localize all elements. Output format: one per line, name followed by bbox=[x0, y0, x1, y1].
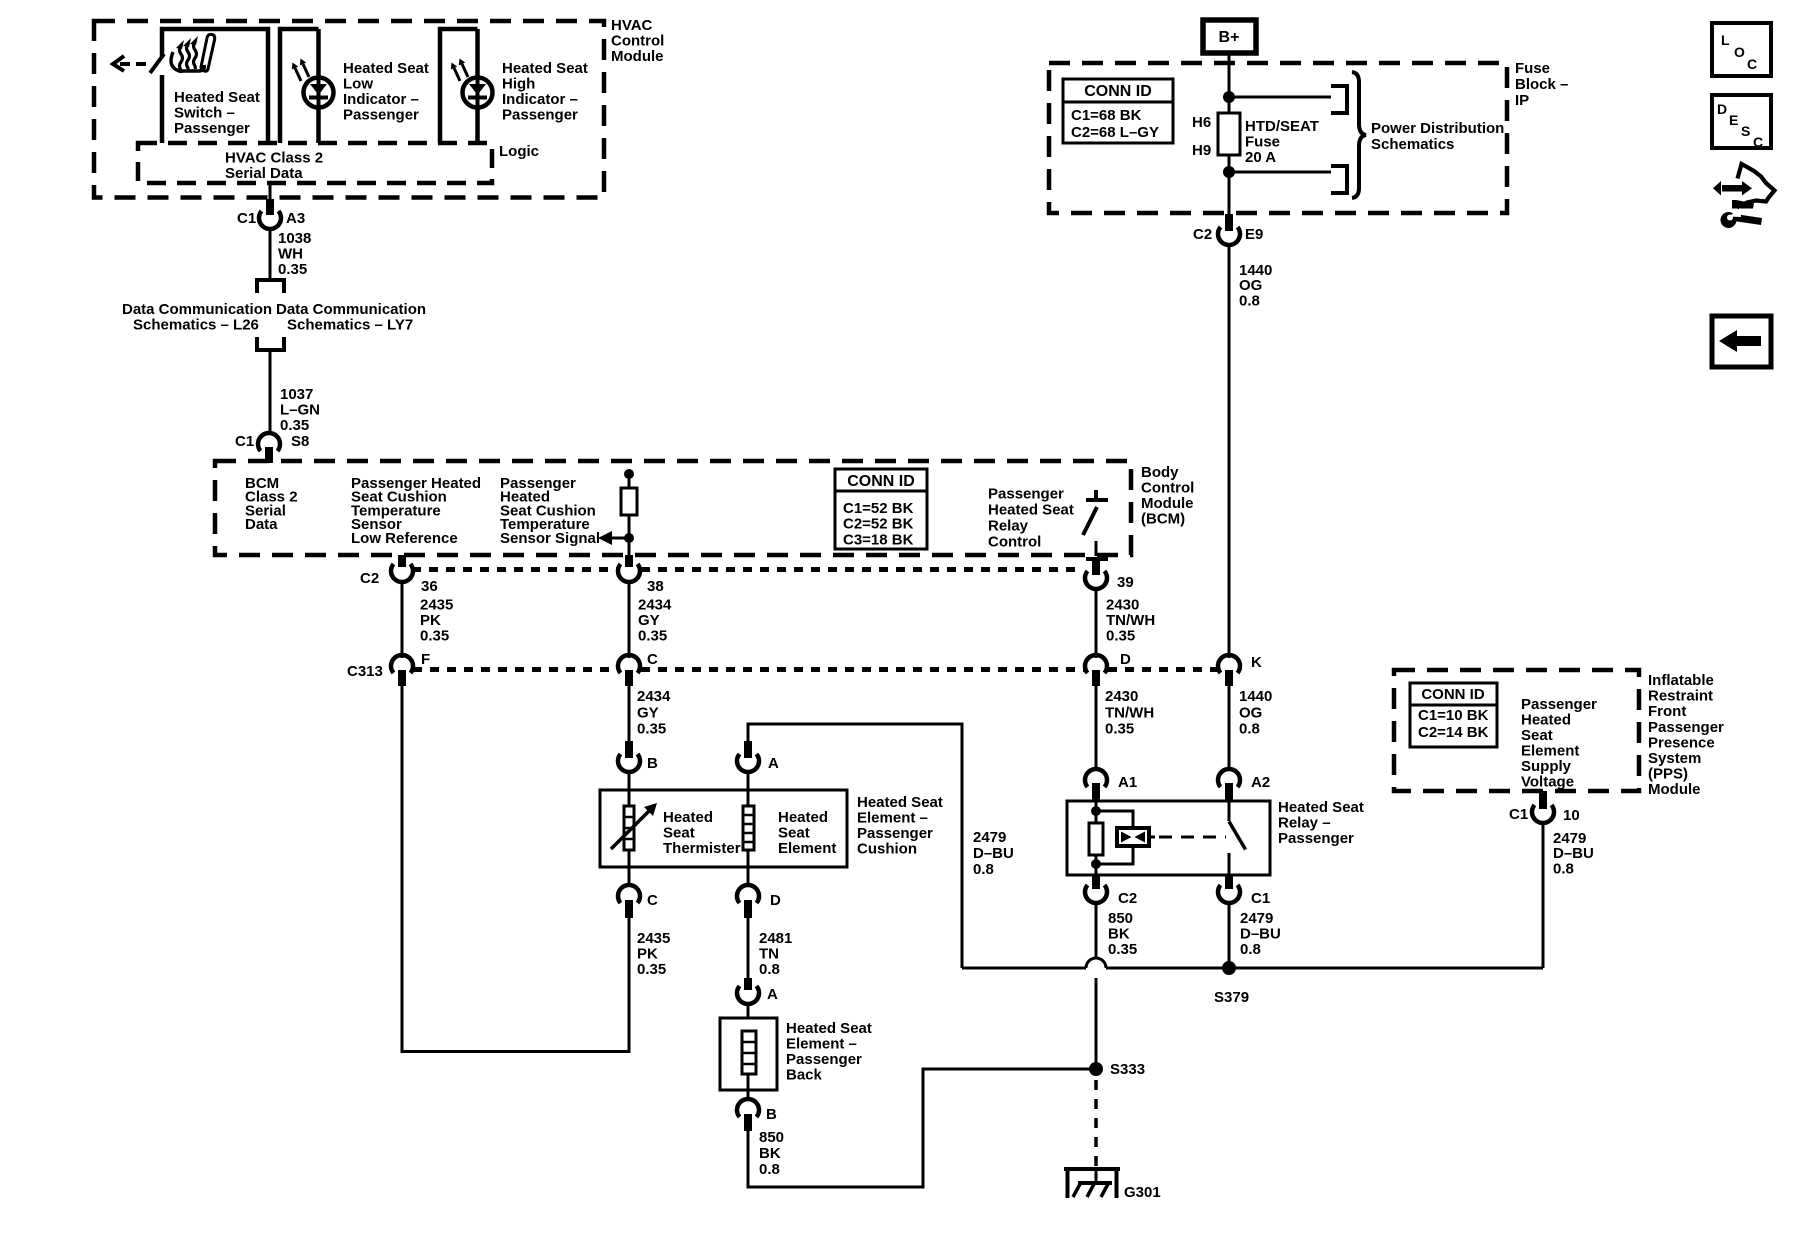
svg-text:CONN ID: CONN ID bbox=[1084, 83, 1152, 100]
svg-text:Power Distribution: Power Distribution bbox=[1371, 120, 1504, 137]
svg-text:2430: 2430 bbox=[1105, 688, 1138, 705]
svg-text:Passenger: Passenger bbox=[1278, 830, 1354, 847]
svg-text:B+: B+ bbox=[1219, 29, 1240, 46]
svg-text:Low: Low bbox=[343, 76, 373, 93]
svg-text:Element –: Element – bbox=[857, 810, 928, 827]
svg-text:Heated Seat: Heated Seat bbox=[343, 60, 429, 77]
svg-text:C1: C1 bbox=[235, 433, 254, 450]
svg-text:Logic: Logic bbox=[499, 143, 539, 160]
svg-text:CONN ID: CONN ID bbox=[1421, 686, 1485, 703]
svg-text:C1: C1 bbox=[1509, 806, 1528, 823]
svg-text:S379: S379 bbox=[1214, 989, 1249, 1006]
svg-text:Passenger: Passenger bbox=[1648, 719, 1724, 736]
svg-text:0.8: 0.8 bbox=[1240, 941, 1261, 958]
svg-text:Fuse: Fuse bbox=[1515, 60, 1550, 77]
svg-text:B: B bbox=[766, 1106, 777, 1123]
svg-text:Module: Module bbox=[1141, 495, 1194, 512]
svg-text:0.8: 0.8 bbox=[1553, 860, 1574, 877]
svg-text:Heated Seat: Heated Seat bbox=[988, 502, 1074, 519]
svg-text:G301: G301 bbox=[1124, 1184, 1161, 1201]
svg-text:Data: Data bbox=[245, 516, 278, 533]
svg-text:C2=52 BK: C2=52 BK bbox=[843, 516, 914, 533]
svg-text:PK: PK bbox=[637, 946, 658, 963]
svg-text:GY: GY bbox=[637, 704, 659, 721]
svg-text:2434: 2434 bbox=[638, 597, 672, 614]
svg-text:Low Reference: Low Reference bbox=[351, 530, 458, 547]
svg-text:0.35: 0.35 bbox=[637, 961, 666, 978]
svg-text:D–BU: D–BU bbox=[1240, 926, 1281, 943]
svg-text:Control: Control bbox=[988, 534, 1041, 551]
svg-text:A: A bbox=[767, 986, 778, 1003]
svg-text:C2: C2 bbox=[360, 570, 379, 587]
svg-text:HVAC: HVAC bbox=[611, 17, 653, 34]
svg-text:10: 10 bbox=[1563, 807, 1580, 824]
svg-text:C: C bbox=[647, 892, 658, 909]
svg-text:0.8: 0.8 bbox=[759, 961, 780, 978]
svg-text:2435: 2435 bbox=[420, 597, 453, 614]
svg-text:0.35: 0.35 bbox=[638, 628, 667, 645]
svg-text:Heated Seat: Heated Seat bbox=[502, 60, 588, 77]
svg-text:Presence: Presence bbox=[1648, 734, 1715, 751]
svg-text:Passenger: Passenger bbox=[1521, 696, 1597, 713]
svg-text:BK: BK bbox=[1108, 926, 1130, 943]
svg-text:0.8: 0.8 bbox=[973, 861, 994, 878]
svg-text:C1=52 BK: C1=52 BK bbox=[843, 500, 914, 517]
svg-text:A: A bbox=[768, 755, 779, 772]
svg-text:C1: C1 bbox=[1251, 890, 1270, 907]
svg-text:C: C bbox=[1747, 56, 1757, 72]
svg-text:S8: S8 bbox=[291, 433, 309, 450]
svg-text:0.35: 0.35 bbox=[1106, 628, 1135, 645]
svg-text:HTD/SEAT: HTD/SEAT bbox=[1245, 118, 1319, 135]
svg-text:0.35: 0.35 bbox=[278, 261, 307, 278]
svg-text:Cushion: Cushion bbox=[857, 841, 917, 858]
svg-text:38: 38 bbox=[647, 578, 664, 595]
svg-text:Front: Front bbox=[1648, 703, 1686, 720]
svg-text:Seat: Seat bbox=[663, 825, 695, 842]
svg-text:Data Communication: Data Communication bbox=[276, 301, 426, 318]
svg-text:(BCM): (BCM) bbox=[1141, 511, 1185, 528]
svg-text:2479: 2479 bbox=[1240, 910, 1273, 927]
svg-text:BK: BK bbox=[759, 1145, 781, 1162]
svg-text:D: D bbox=[770, 892, 781, 909]
svg-text:C2: C2 bbox=[1193, 226, 1212, 243]
svg-text:D–BU: D–BU bbox=[973, 845, 1014, 862]
svg-text:Thermister: Thermister bbox=[663, 840, 741, 857]
svg-text:IP: IP bbox=[1515, 92, 1529, 109]
svg-text:1440: 1440 bbox=[1239, 688, 1272, 705]
svg-text:Passenger: Passenger bbox=[786, 1051, 862, 1068]
svg-text:Passenger: Passenger bbox=[857, 825, 933, 842]
svg-text:Passenger: Passenger bbox=[988, 486, 1064, 503]
svg-text:0.8: 0.8 bbox=[1239, 292, 1260, 309]
svg-text:High: High bbox=[502, 76, 535, 93]
svg-text:C1=68 BK: C1=68 BK bbox=[1071, 107, 1142, 124]
svg-text:S: S bbox=[1741, 123, 1750, 139]
svg-text:Indicator –: Indicator – bbox=[502, 91, 578, 108]
svg-text:F: F bbox=[421, 651, 430, 668]
svg-text:Relay –: Relay – bbox=[1278, 815, 1331, 832]
svg-text:OG: OG bbox=[1239, 704, 1262, 721]
svg-text:TN/WH: TN/WH bbox=[1106, 612, 1155, 629]
svg-text:Sensor Signal: Sensor Signal bbox=[500, 530, 600, 547]
svg-text:2434: 2434 bbox=[637, 688, 671, 705]
svg-text:L–GN: L–GN bbox=[280, 402, 320, 419]
svg-text:H9: H9 bbox=[1192, 142, 1211, 159]
svg-text:Element –: Element – bbox=[786, 1036, 857, 1053]
svg-text:C: C bbox=[1753, 134, 1763, 150]
svg-text:S333: S333 bbox=[1110, 1061, 1145, 1078]
svg-text:Body: Body bbox=[1141, 464, 1179, 481]
svg-text:E9: E9 bbox=[1245, 226, 1263, 243]
svg-text:Voltage: Voltage bbox=[1521, 774, 1574, 791]
svg-text:20 A: 20 A bbox=[1245, 149, 1276, 166]
svg-text:2479: 2479 bbox=[973, 829, 1006, 846]
svg-text:K: K bbox=[1251, 654, 1262, 671]
svg-text:Indicator –: Indicator – bbox=[343, 91, 419, 108]
svg-text:Passenger: Passenger bbox=[343, 107, 419, 124]
svg-text:36: 36 bbox=[421, 578, 438, 595]
svg-text:850: 850 bbox=[1108, 910, 1133, 927]
svg-text:C313: C313 bbox=[347, 663, 383, 680]
svg-text:(PPS): (PPS) bbox=[1648, 766, 1688, 783]
svg-text:D: D bbox=[1717, 101, 1727, 117]
svg-text:850: 850 bbox=[759, 1129, 784, 1146]
svg-text:HVAC Class 2: HVAC Class 2 bbox=[225, 150, 323, 167]
svg-text:1037: 1037 bbox=[280, 386, 313, 403]
svg-text:0.35: 0.35 bbox=[1105, 721, 1134, 738]
svg-text:Inflatable: Inflatable bbox=[1648, 672, 1714, 689]
svg-text:Passenger: Passenger bbox=[174, 120, 250, 137]
svg-text:Block –: Block – bbox=[1515, 76, 1568, 93]
svg-text:A3: A3 bbox=[286, 210, 305, 227]
svg-text:H6: H6 bbox=[1192, 114, 1211, 131]
svg-text:39: 39 bbox=[1117, 574, 1134, 591]
svg-text:Seat: Seat bbox=[778, 825, 810, 842]
svg-text:TN: TN bbox=[759, 946, 779, 963]
svg-text:Back: Back bbox=[786, 1067, 823, 1084]
svg-text:Heated: Heated bbox=[1521, 712, 1571, 729]
svg-text:0.8: 0.8 bbox=[1239, 721, 1260, 738]
svg-text:Control: Control bbox=[611, 33, 664, 50]
svg-text:C2=68 L–GY: C2=68 L–GY bbox=[1071, 124, 1159, 141]
svg-text:CONN ID: CONN ID bbox=[847, 473, 915, 490]
svg-text:O: O bbox=[1734, 44, 1745, 60]
svg-text:Heated: Heated bbox=[663, 809, 713, 826]
svg-text:C1=10 BK: C1=10 BK bbox=[1418, 707, 1489, 724]
svg-text:Heated Seat: Heated Seat bbox=[786, 1020, 872, 1037]
svg-text:Fuse: Fuse bbox=[1245, 134, 1280, 151]
svg-text:Schematics – LY7: Schematics – LY7 bbox=[287, 317, 413, 334]
svg-text:PK: PK bbox=[420, 612, 441, 629]
svg-text:Schematics: Schematics bbox=[1371, 136, 1454, 153]
svg-text:Element: Element bbox=[1521, 743, 1579, 760]
svg-text:0.35: 0.35 bbox=[1108, 941, 1137, 958]
svg-text:D: D bbox=[1120, 651, 1131, 668]
svg-text:L: L bbox=[1721, 32, 1730, 48]
svg-text:Module: Module bbox=[611, 48, 664, 65]
svg-text:Heated: Heated bbox=[778, 809, 828, 826]
svg-text:Data Communication: Data Communication bbox=[122, 301, 272, 318]
svg-text:C: C bbox=[647, 651, 658, 668]
svg-text:C2=14 BK: C2=14 BK bbox=[1418, 724, 1489, 741]
svg-text:C3=18 BK: C3=18 BK bbox=[843, 531, 914, 548]
svg-text:B: B bbox=[647, 755, 658, 772]
svg-text:C2: C2 bbox=[1118, 890, 1137, 907]
svg-text:Serial Data: Serial Data bbox=[225, 165, 303, 182]
svg-text:0.35: 0.35 bbox=[280, 417, 309, 434]
svg-text:Relay: Relay bbox=[988, 518, 1029, 535]
svg-text:0.8: 0.8 bbox=[759, 1161, 780, 1178]
svg-text:GY: GY bbox=[638, 612, 660, 629]
svg-text:Restraint: Restraint bbox=[1648, 688, 1713, 705]
svg-text:Supply: Supply bbox=[1521, 758, 1572, 775]
svg-text:System: System bbox=[1648, 750, 1701, 767]
svg-text:Element: Element bbox=[778, 840, 836, 857]
svg-text:2481: 2481 bbox=[759, 930, 792, 947]
svg-text:Module: Module bbox=[1648, 781, 1701, 798]
svg-text:Control: Control bbox=[1141, 480, 1194, 497]
svg-text:TN/WH: TN/WH bbox=[1105, 704, 1154, 721]
svg-text:2435: 2435 bbox=[637, 930, 670, 947]
svg-text:Switch –: Switch – bbox=[174, 105, 235, 122]
svg-text:0.35: 0.35 bbox=[420, 628, 449, 645]
svg-text:2430: 2430 bbox=[1106, 597, 1139, 614]
svg-text:C1: C1 bbox=[237, 210, 256, 227]
svg-text:Passenger: Passenger bbox=[502, 107, 578, 124]
svg-text:WH: WH bbox=[278, 246, 303, 263]
svg-text:Schematics – L26: Schematics – L26 bbox=[133, 317, 259, 334]
svg-text:1038: 1038 bbox=[278, 230, 311, 247]
svg-text:A1: A1 bbox=[1118, 774, 1137, 791]
svg-text:Heated Seat: Heated Seat bbox=[1278, 799, 1364, 816]
svg-text:Heated Seat: Heated Seat bbox=[857, 794, 943, 811]
svg-text:Seat: Seat bbox=[1521, 727, 1553, 744]
svg-text:0.35: 0.35 bbox=[637, 721, 666, 738]
svg-text:Heated Seat: Heated Seat bbox=[174, 89, 260, 106]
svg-text:A2: A2 bbox=[1251, 774, 1270, 791]
svg-text:E: E bbox=[1729, 112, 1738, 128]
